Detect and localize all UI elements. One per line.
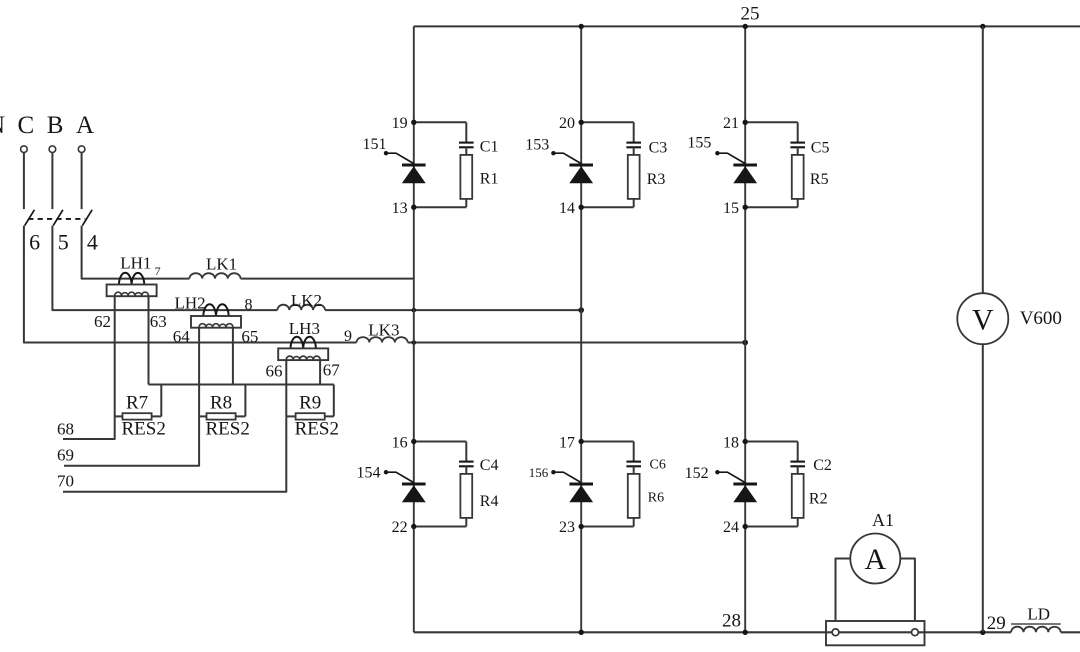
svg-text:156: 156 — [529, 465, 549, 480]
thyristor 154 cathode bar — [402, 483, 426, 486]
svg-text:R1: R1 — [480, 170, 499, 187]
wire column 2 — [580, 26, 582, 632]
wire phase C to bridge — [408, 342, 746, 344]
wire phase A down — [82, 226, 190, 279]
wire ammeter left — [836, 559, 851, 622]
svg-text:17: 17 — [559, 434, 575, 451]
svg-text:70: 70 — [57, 472, 74, 491]
svg-text:LD: LD — [1027, 604, 1050, 623]
svg-text:8: 8 — [245, 297, 253, 314]
wire LH1 secondary left — [114, 296, 116, 416]
wire RC top link 154 — [414, 441, 467, 443]
voltmeter V1 — [957, 293, 1008, 344]
svg-text:R6: R6 — [648, 491, 664, 506]
inductor LK3 — [357, 337, 408, 342]
capacitor C2 — [797, 442, 799, 462]
svg-text:RES2: RES2 — [206, 419, 250, 440]
wire RC top link 153 — [581, 121, 634, 123]
switch linkage dashed — [28, 218, 85, 220]
shunt terminal left — [832, 629, 839, 636]
resistor R4 — [465, 466, 467, 474]
junction bottom bus node 29 — [980, 630, 985, 635]
inductor LK2 — [277, 305, 325, 310]
svg-text:23: 23 — [559, 519, 575, 536]
wire RC top link 151 — [414, 121, 467, 123]
svg-text:C3: C3 — [649, 139, 668, 156]
svg-text:C5: C5 — [811, 139, 830, 156]
svg-text:64: 64 — [173, 327, 191, 346]
wire RC top link 152 — [745, 441, 798, 443]
wire secondary bus — [149, 384, 334, 386]
svg-text:21: 21 — [723, 115, 739, 132]
switch blade 4 — [82, 210, 92, 226]
svg-text:C6: C6 — [650, 457, 666, 472]
shunt box — [826, 621, 925, 645]
svg-text:28: 28 — [722, 611, 741, 632]
svg-text:R9: R9 — [299, 393, 321, 414]
wire RC bottom link 155 — [745, 206, 798, 208]
wire ammeter right — [900, 559, 915, 622]
wire bottom bus 28 — [414, 631, 1011, 633]
svg-text:LH1: LH1 — [120, 254, 151, 273]
wire R7 left lead — [115, 415, 123, 417]
wire RC bottom link 153 — [581, 206, 634, 208]
wire C drop — [23, 153, 25, 210]
thyristor 151 cathode bar — [402, 164, 426, 167]
junction node 23 — [579, 524, 584, 529]
transformer LH3 — [291, 337, 316, 349]
capacitor C1 — [465, 122, 467, 142]
junction bottom bus col3 — [743, 630, 748, 635]
svg-text:69: 69 — [57, 446, 74, 465]
svg-text:68: 68 — [57, 419, 74, 438]
svg-text:5: 5 — [58, 229, 69, 254]
wire voltmeter top — [982, 26, 984, 293]
junction top bus voltmeter — [980, 24, 985, 29]
thyristor 152 triangle — [733, 485, 757, 502]
svg-text:152: 152 — [685, 465, 709, 482]
wire R9 right lead — [325, 415, 334, 417]
wire R8 right lead — [236, 415, 246, 417]
svg-text:65: 65 — [241, 327, 258, 346]
junction dot B at column1 crossing — [412, 308, 417, 313]
thyristor 156 triangle — [569, 485, 593, 502]
wire R8 left lead — [199, 415, 206, 417]
wire phase B down — [52, 226, 277, 311]
svg-text:R2: R2 — [809, 490, 828, 507]
wire RC bottom link 152 — [745, 526, 798, 528]
junction node 22 — [411, 524, 416, 529]
svg-text:LH3: LH3 — [289, 319, 320, 338]
wire A drop — [81, 153, 83, 210]
svg-text:RES2: RES2 — [122, 419, 166, 440]
terminal A — [78, 146, 85, 153]
wire phase C down — [24, 226, 357, 343]
capacitor C3 — [633, 122, 635, 142]
thyristor 156 gate — [553, 472, 581, 482]
thyristor 155 triangle — [733, 166, 757, 183]
wire R9 right stub up — [333, 385, 335, 417]
junction node 21 — [743, 120, 748, 125]
thyristor 155 gate — [717, 153, 745, 163]
wire column 3 — [744, 26, 746, 632]
wire B drop — [51, 153, 53, 210]
resistor R8 — [207, 413, 236, 419]
svg-text:154: 154 — [357, 464, 381, 481]
capacitor C4 — [465, 442, 467, 462]
shunt terminal right — [912, 629, 919, 636]
junction node 15 — [743, 205, 748, 210]
svg-text:C4: C4 — [480, 457, 499, 474]
svg-text:25: 25 — [741, 3, 760, 24]
wire top bus 25 — [414, 25, 1080, 27]
wire column 1 — [413, 26, 415, 632]
ammeter A1 — [850, 534, 900, 584]
svg-text:7: 7 — [155, 264, 161, 278]
svg-text:RES2: RES2 — [295, 419, 339, 440]
resistor R5 — [797, 147, 799, 155]
svg-text:14: 14 — [559, 200, 575, 217]
svg-text:LH2: LH2 — [175, 294, 206, 313]
wire 64 to node 69 — [64, 416, 199, 465]
wire R7 right stub up — [160, 385, 162, 417]
thyristor 156 cathode bar — [569, 483, 593, 486]
junction node 14 — [579, 205, 584, 210]
junction node 18 — [743, 439, 748, 444]
wire LH2 secondary right — [232, 328, 234, 385]
capacitor C5 — [797, 122, 799, 142]
switch blade 6 — [25, 210, 35, 226]
inductor LK1 — [189, 273, 240, 278]
junction node 24 — [743, 524, 748, 529]
node 8 junction at column2 — [578, 307, 584, 313]
svg-text:22: 22 — [392, 519, 408, 536]
svg-text:4: 4 — [87, 229, 98, 254]
thyristor 151 triangle — [402, 166, 426, 183]
junction node 17 — [579, 439, 584, 444]
svg-text:13: 13 — [392, 200, 408, 217]
svg-text:C2: C2 — [813, 457, 832, 474]
inductor LD — [1011, 627, 1061, 633]
transformer LH2 — [203, 304, 228, 316]
svg-text:A1: A1 — [872, 510, 894, 530]
resistor R1 — [465, 147, 467, 155]
svg-text:153: 153 — [525, 137, 549, 154]
thyristor 152 gate — [717, 472, 745, 482]
wire LH3 secondary right — [319, 360, 321, 384]
svg-text:V: V — [972, 303, 994, 336]
svg-text:151: 151 — [363, 136, 387, 153]
wire RC bottom link 154 — [414, 526, 467, 528]
junction node 13 — [411, 205, 416, 210]
capacitor C6 — [633, 442, 635, 462]
wire RC top link 156 — [581, 441, 634, 443]
wire R9 left lead — [286, 415, 295, 417]
svg-text:N: N — [0, 112, 5, 139]
thyristor 153 cathode bar — [569, 164, 593, 167]
wire voltmeter bottom — [982, 344, 984, 632]
wire RC bottom link 156 — [581, 526, 634, 528]
thyristor 153 gate — [553, 153, 581, 163]
svg-text:62: 62 — [94, 312, 111, 331]
svg-text:63: 63 — [150, 312, 167, 331]
junction node 19 — [411, 120, 416, 125]
resistor R7 — [123, 413, 152, 419]
transformer LH1 — [119, 273, 144, 285]
junction top bus col2 — [579, 24, 584, 29]
junction bottom bus col2 — [579, 630, 584, 635]
junction node 20 — [579, 120, 584, 125]
svg-text:20: 20 — [559, 115, 575, 132]
wire LD to edge — [1061, 631, 1080, 633]
wire RC top link 155 — [745, 121, 798, 123]
wire 66 to node 70 — [63, 416, 286, 491]
svg-text:66: 66 — [266, 361, 283, 380]
svg-text:C1: C1 — [480, 139, 499, 156]
LD underline — [1011, 623, 1061, 625]
thyristor 151 gate — [386, 153, 414, 163]
thyristor 152 cathode bar — [733, 483, 757, 486]
svg-text:155: 155 — [687, 135, 711, 152]
switch blade 5 — [53, 210, 63, 226]
wire RC bottom link 151 — [414, 206, 467, 208]
wire 62 to node 68 — [63, 416, 115, 439]
svg-text:6: 6 — [29, 229, 40, 254]
svg-text:A: A — [864, 543, 886, 576]
svg-text:R7: R7 — [126, 393, 148, 414]
svg-text:R3: R3 — [647, 171, 666, 188]
resistor R3 — [633, 147, 635, 155]
wire phase B to bridge — [325, 309, 581, 311]
junction dot C at column1 crossing — [412, 340, 417, 345]
wire R7 right lead — [152, 415, 162, 417]
resistor R6 — [633, 466, 635, 474]
thyristor 155 cathode bar — [733, 164, 757, 167]
svg-text:67: 67 — [323, 361, 341, 380]
svg-text:15: 15 — [723, 200, 739, 217]
wire LH2 secondary left — [198, 328, 200, 417]
wire phase A to bridge — [241, 278, 414, 280]
node 9 junction at column3 — [742, 340, 748, 346]
thyristor 154 gate — [386, 472, 414, 482]
svg-text:R8: R8 — [210, 393, 232, 414]
svg-text:18: 18 — [723, 434, 739, 451]
svg-text:R4: R4 — [480, 493, 499, 510]
wire LH3 secondary left — [285, 360, 287, 416]
svg-text:29: 29 — [987, 613, 1006, 634]
svg-text:LK3: LK3 — [368, 321, 399, 340]
terminal B — [49, 146, 56, 153]
resistor R2 — [797, 466, 799, 474]
junction top bus col3 — [743, 24, 748, 29]
wire LH1 secondary right — [148, 296, 150, 384]
svg-text:C: C — [18, 112, 35, 139]
terminal C — [21, 146, 28, 153]
svg-text:LK2: LK2 — [291, 291, 322, 310]
svg-text:A: A — [76, 112, 94, 139]
svg-text:R5: R5 — [810, 171, 829, 188]
thyristor 153 triangle — [569, 166, 593, 183]
svg-text:9: 9 — [344, 328, 352, 345]
resistor R9 — [296, 413, 325, 419]
svg-text:V600: V600 — [1020, 308, 1062, 329]
svg-text:B: B — [47, 112, 64, 139]
junction node 16 — [411, 439, 416, 444]
svg-text:24: 24 — [723, 519, 739, 536]
svg-text:LK1: LK1 — [206, 254, 237, 273]
wire R8 right stub up — [244, 385, 246, 417]
thyristor 154 triangle — [402, 485, 426, 502]
svg-text:16: 16 — [392, 434, 408, 451]
svg-text:19: 19 — [392, 115, 408, 132]
